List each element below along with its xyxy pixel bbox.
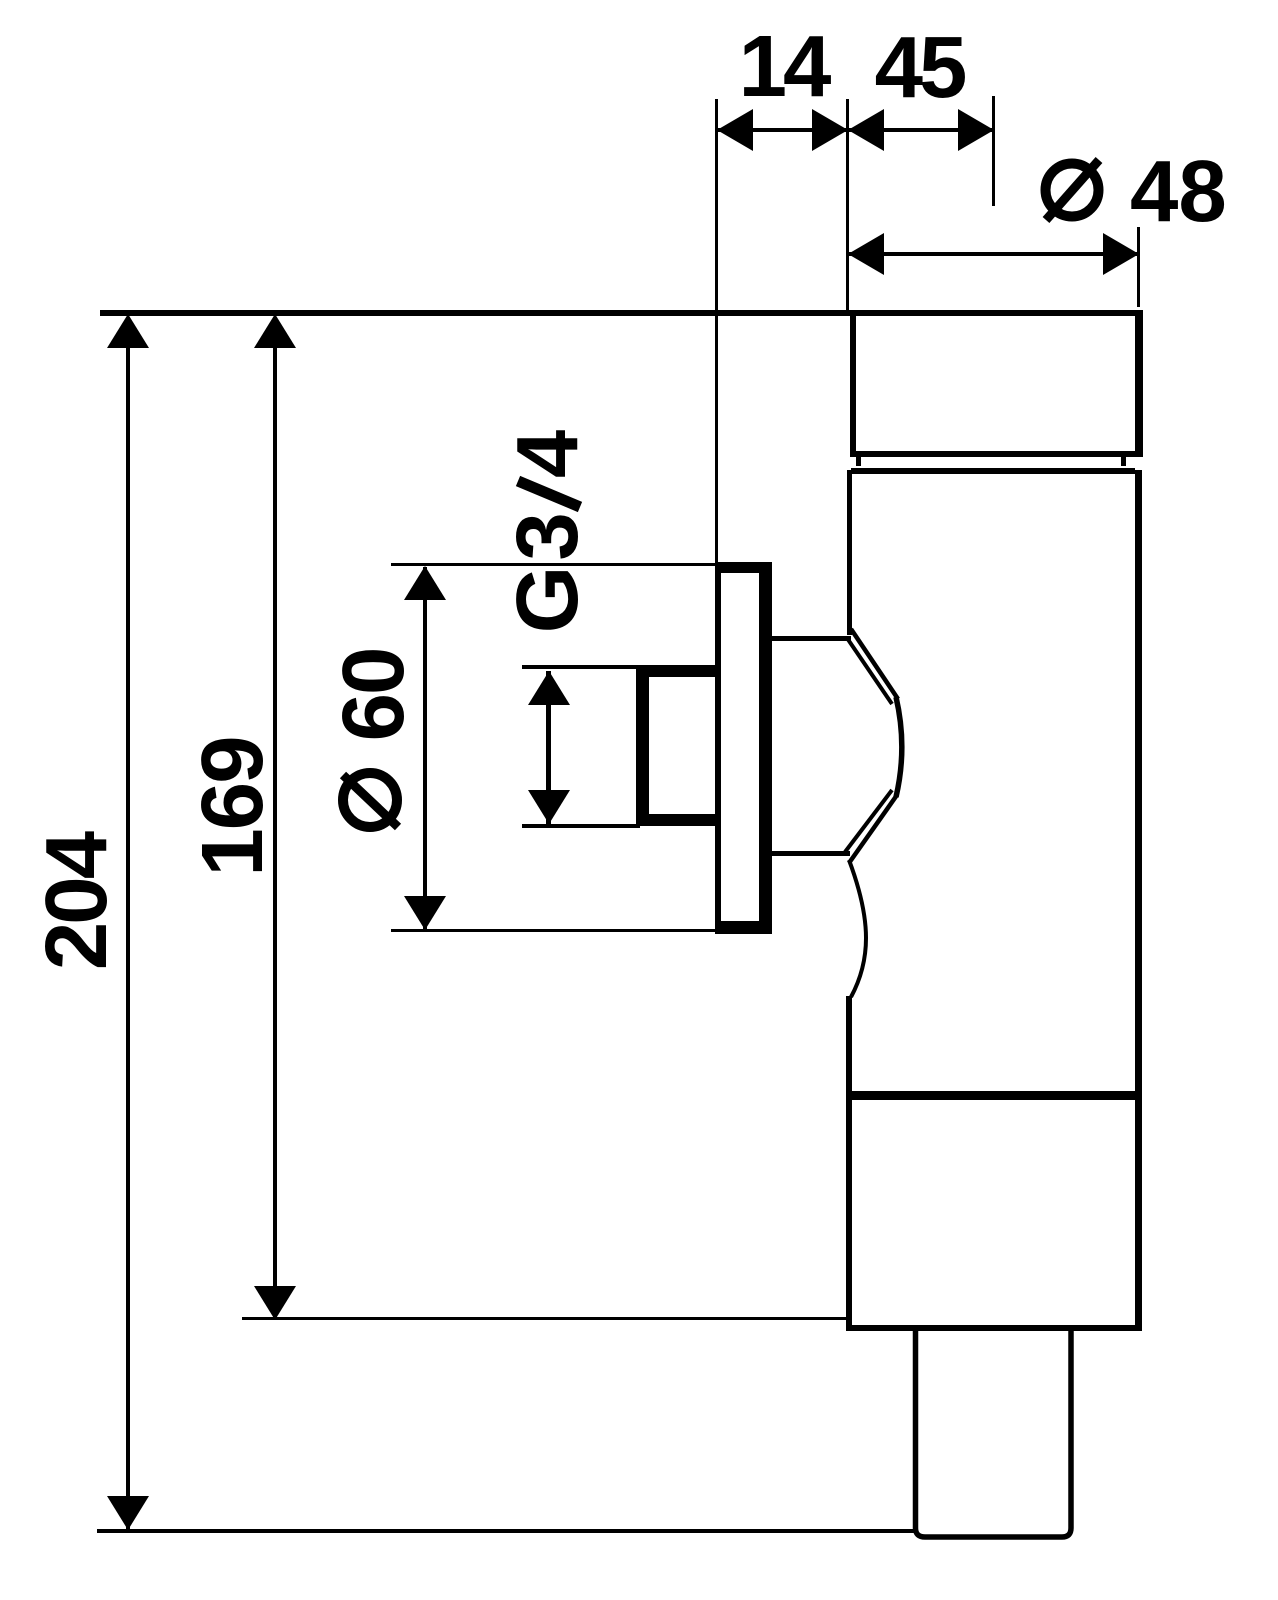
svg-text:60: 60	[325, 649, 422, 742]
svg-text:204: 204	[28, 831, 125, 970]
dimension G34 bottom arrow	[528, 790, 570, 824]
svg-text:169: 169	[184, 737, 281, 876]
boss bulge arc	[896, 697, 902, 797]
spigot G3/4 nipple	[636, 665, 721, 826]
dimension 169 extension line	[242, 1317, 846, 1320]
wall flange	[715, 562, 772, 934]
dimension 45 left arrow	[848, 109, 884, 151]
dimension G34 top extension line	[522, 665, 640, 669]
svg-text:14: 14	[739, 18, 831, 115]
dimension 14 right arrow	[812, 109, 848, 151]
dimension D60 top extension line	[391, 563, 719, 566]
dimension G34 bottom extension line	[522, 824, 640, 828]
top reference line	[100, 310, 1142, 316]
dimension 169 line	[273, 317, 277, 1319]
body lower left edge	[846, 996, 852, 1331]
dimension 14 left arrow	[717, 109, 753, 151]
dimension G34 line	[546, 671, 551, 824]
svg-text:45: 45	[875, 19, 965, 116]
label D48	[1046, 164, 1099, 217]
dimension D60 bottom extension line	[391, 929, 719, 932]
boss upper chamfer outer	[851, 629, 898, 699]
dimension D48 right arrow	[1103, 233, 1139, 275]
dimension 204 extension line	[97, 1529, 915, 1533]
dimension 45 line	[848, 128, 994, 132]
dimension D48 extension line	[1137, 227, 1140, 307]
neck curve	[849, 860, 866, 997]
joint thick line	[846, 1091, 1142, 1100]
dimension D48 left arrow	[848, 233, 884, 275]
dimension D60 line	[423, 567, 427, 929]
body bottom edge	[846, 1325, 1142, 1331]
dimension 204 line	[126, 317, 130, 1529]
body cap left edge	[850, 310, 856, 457]
dimension 14 line	[717, 128, 848, 132]
dimension 204 bottom arrow	[107, 1496, 149, 1530]
boss top line	[772, 636, 851, 641]
boss lower chamfer outer	[849, 795, 897, 863]
svg-text:G3 4: G3 4	[499, 425, 596, 634]
boss bottom line	[772, 851, 850, 856]
boss lower chamfer inner	[845, 790, 892, 852]
dimension G34 top arrow	[528, 671, 570, 705]
dimension 14 left extension line	[715, 99, 718, 565]
dimension 169 bottom arrow	[254, 1286, 296, 1320]
body cap right edge	[1135, 310, 1143, 457]
tailpipe	[916, 1331, 1072, 1537]
body upper left edge	[847, 470, 852, 635]
body top edge	[851, 468, 1135, 474]
dimension D60 top arrow	[404, 566, 446, 600]
boss upper chamfer inner	[847, 638, 892, 704]
seam tick left	[856, 457, 861, 466]
dimension 14 right extension line	[846, 99, 849, 312]
dimension 45 right arrow	[958, 109, 994, 151]
body cap bottom edge	[850, 451, 1141, 457]
svg-text:48: 48	[1130, 143, 1227, 240]
dimension 169 top arrow	[254, 314, 296, 348]
label D60	[343, 773, 397, 827]
dimension D48 line	[848, 252, 1139, 256]
dimension 204 top arrow	[107, 314, 149, 348]
body right edge	[1135, 470, 1142, 1331]
seam tick right	[1121, 457, 1126, 466]
dimension D60 bottom arrow	[404, 896, 446, 930]
dimension 45 extension line	[992, 96, 995, 206]
